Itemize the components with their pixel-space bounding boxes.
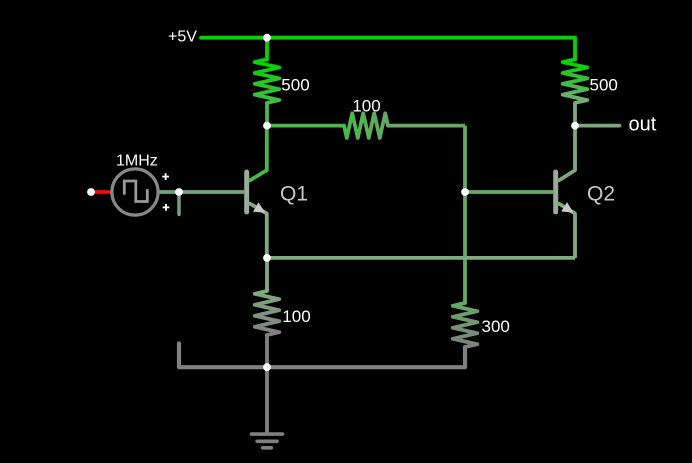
svg-text:300: 300	[482, 317, 510, 336]
svg-text:Q2: Q2	[587, 183, 615, 206]
svg-text:100: 100	[352, 96, 380, 115]
svg-text:out: out	[629, 114, 657, 136]
svg-text:1MHz: 1MHz	[116, 153, 158, 170]
svg-text:100: 100	[282, 307, 310, 326]
svg-text:500: 500	[590, 76, 618, 95]
svg-text:Q1: Q1	[280, 183, 308, 206]
svg-text:+5V: +5V	[168, 29, 197, 46]
svg-text:500: 500	[281, 76, 309, 95]
